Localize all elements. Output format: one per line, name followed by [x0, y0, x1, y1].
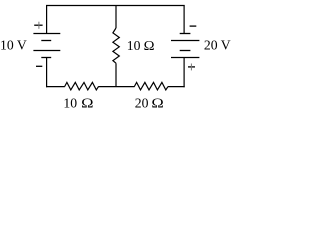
- svg-text:20: 20: [135, 96, 149, 111]
- label 20 V (V2 value): [204, 38, 231, 53]
- label 10 V (V1 value): [0, 38, 27, 53]
- wire left rail upper (V1 + lead): [46, 6, 48, 34]
- wire top (node between V1 + terminal, R1 top, V2 - terminal): [46, 5, 185, 7]
- minus sign of V1: [36, 65, 42, 67]
- resistor R1 10 ohm (middle vertical zigzag): [113, 28, 119, 63]
- wire right rail upper (V2 - lead): [183, 6, 185, 34]
- svg-text:Ω: Ω: [81, 96, 93, 111]
- svg-text:10: 10: [63, 96, 77, 111]
- plus sign of V2: [188, 64, 195, 71]
- wire bottom middle segment: [98, 86, 134, 88]
- minus sign of V2: [190, 25, 197, 27]
- svg-text:10: 10: [127, 38, 141, 53]
- wire bottom left segment: [46, 86, 65, 88]
- svg-text:Ω: Ω: [151, 96, 163, 111]
- wire middle branch lower (R1 bottom lead): [115, 63, 117, 86]
- wire middle branch upper (R1 top lead): [115, 6, 117, 29]
- resistor R2 10 ohm (bottom left zigzag): [65, 82, 99, 90]
- plus sign of V1: [34, 22, 42, 29]
- svg-text:20 V: 20 V: [204, 38, 231, 53]
- wire right rail lower (V2 + lead): [183, 58, 185, 88]
- wire bottom right segment: [168, 86, 185, 88]
- label 10 ohm (R2 value): [63, 96, 93, 111]
- wire left rail lower (V1 - lead): [46, 58, 48, 88]
- label 10 ohm (R1 value): [127, 38, 155, 53]
- battery V1 10 V (plates, + up): [33, 34, 60, 58]
- resistor R3 20 ohm (bottom right zigzag): [134, 82, 168, 90]
- battery V2 20 V (plates, - up): [171, 34, 199, 58]
- svg-text:Ω: Ω: [144, 38, 155, 53]
- label 20 ohm (R3 value): [135, 96, 164, 111]
- svg-text:10 V: 10 V: [0, 38, 27, 53]
